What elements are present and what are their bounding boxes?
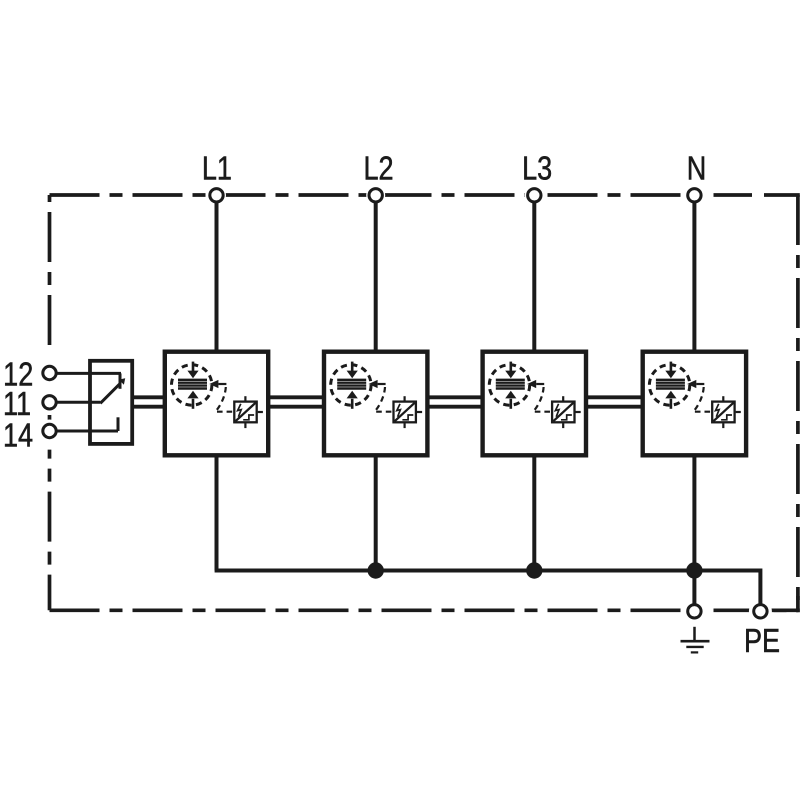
svg-text:11: 11 (3, 386, 31, 422)
svg-text:L1: L1 (202, 151, 232, 187)
svg-text:PE: PE (744, 624, 780, 660)
svg-text:L2: L2 (363, 151, 393, 187)
svg-text:N: N (687, 151, 707, 187)
svg-text:L3: L3 (522, 151, 552, 187)
svg-text:14: 14 (3, 418, 33, 454)
